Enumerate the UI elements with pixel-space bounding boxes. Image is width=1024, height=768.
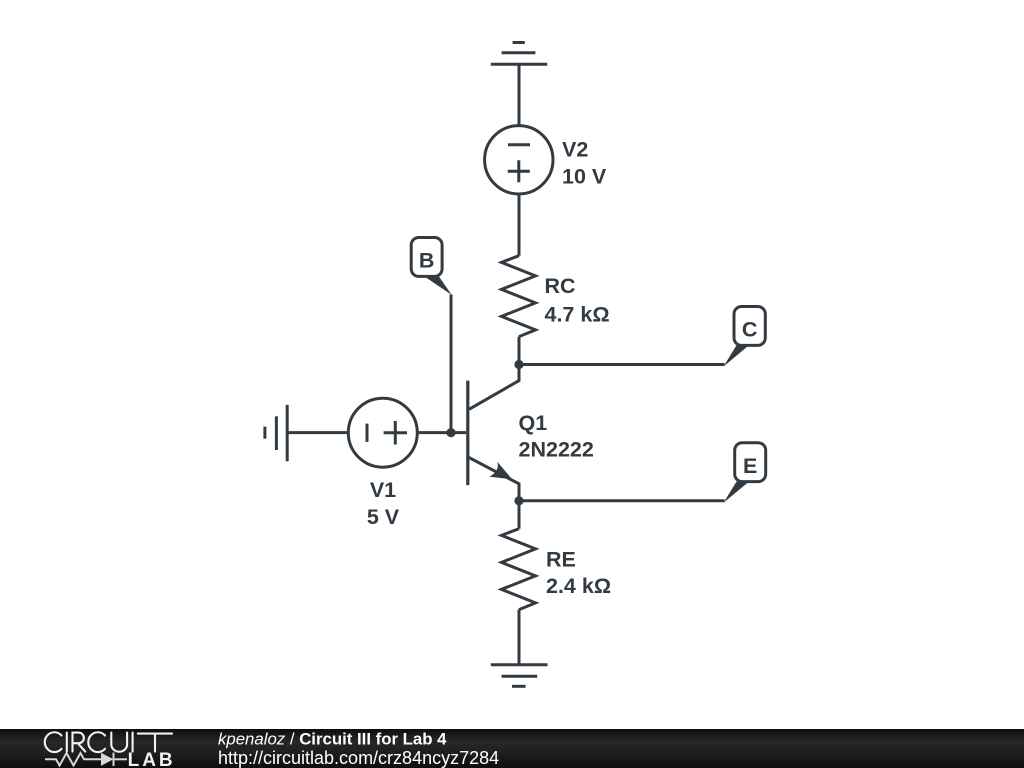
- wire terminal B to base node: [450, 295, 453, 433]
- logo CIRCUIT wordmark: [45, 732, 172, 752]
- node collector junction: [514, 360, 523, 369]
- ground left (V1 negative): [265, 405, 287, 461]
- node base junction: [446, 428, 455, 437]
- voltage source V2: [485, 126, 553, 194]
- label V2 10 V: [562, 138, 607, 189]
- terminal E: [724, 443, 766, 503]
- terminal C: [724, 307, 766, 367]
- label Q1 2N2222: [519, 411, 594, 462]
- label RC 4.7 kOhm: [545, 274, 610, 327]
- voltage source V1: [348, 398, 417, 467]
- svg-text:RC: RC: [545, 274, 576, 298]
- ground top (V2 negative rail): [491, 43, 547, 65]
- svg-text:V1: V1: [370, 478, 396, 502]
- wire emitter node to terminal E: [519, 499, 725, 502]
- svg-text:LAB: LAB: [128, 750, 176, 768]
- svg-text:V2: V2: [562, 138, 588, 162]
- footer bar: [0, 729, 1024, 768]
- svg-text:Q1: Q1: [519, 411, 548, 435]
- svg-text:kpenaloz / Circuit III for Lab: kpenaloz / Circuit III for Lab 4: [218, 729, 447, 748]
- wire V2 to RC: [518, 193, 521, 255]
- ground bottom: [491, 665, 548, 687]
- terminal B: [411, 238, 452, 296]
- svg-text:2.4 kΩ: 2.4 kΩ: [546, 574, 611, 598]
- svg-text:C: C: [742, 318, 758, 342]
- wire collector node to terminal C: [519, 363, 725, 366]
- wire emitter node to RE: [518, 501, 521, 529]
- wire RC to collector node: [518, 337, 521, 365]
- resistor RC: [502, 256, 536, 337]
- resistor RE: [502, 529, 536, 610]
- node emitter junction: [514, 496, 523, 505]
- logo schematic squiggle (resistor and diode): [45, 753, 127, 766]
- svg-text:2N2222: 2N2222: [519, 438, 594, 462]
- svg-text:B: B: [419, 249, 435, 273]
- svg-text:http://circuitlab.com/crz84ncy: http://circuitlab.com/crz84ncyz7284: [218, 748, 499, 768]
- transistor Q1 2N2222: [468, 365, 519, 501]
- svg-text:4.7 kΩ: 4.7 kΩ: [545, 303, 610, 327]
- svg-text:E: E: [743, 454, 757, 478]
- svg-text:RE: RE: [546, 548, 576, 572]
- label RE 2.4 kOhm: [546, 548, 611, 598]
- svg-text:10 V: 10 V: [562, 165, 607, 189]
- wire left ground to V1: [287, 431, 348, 434]
- wire base (V1 to Q1 base): [417, 431, 466, 434]
- wire RE to bottom ground: [518, 610, 521, 665]
- wire top ground to V2: [518, 64, 521, 125]
- label V1 5 V: [367, 478, 400, 529]
- svg-text:5 V: 5 V: [367, 505, 400, 529]
